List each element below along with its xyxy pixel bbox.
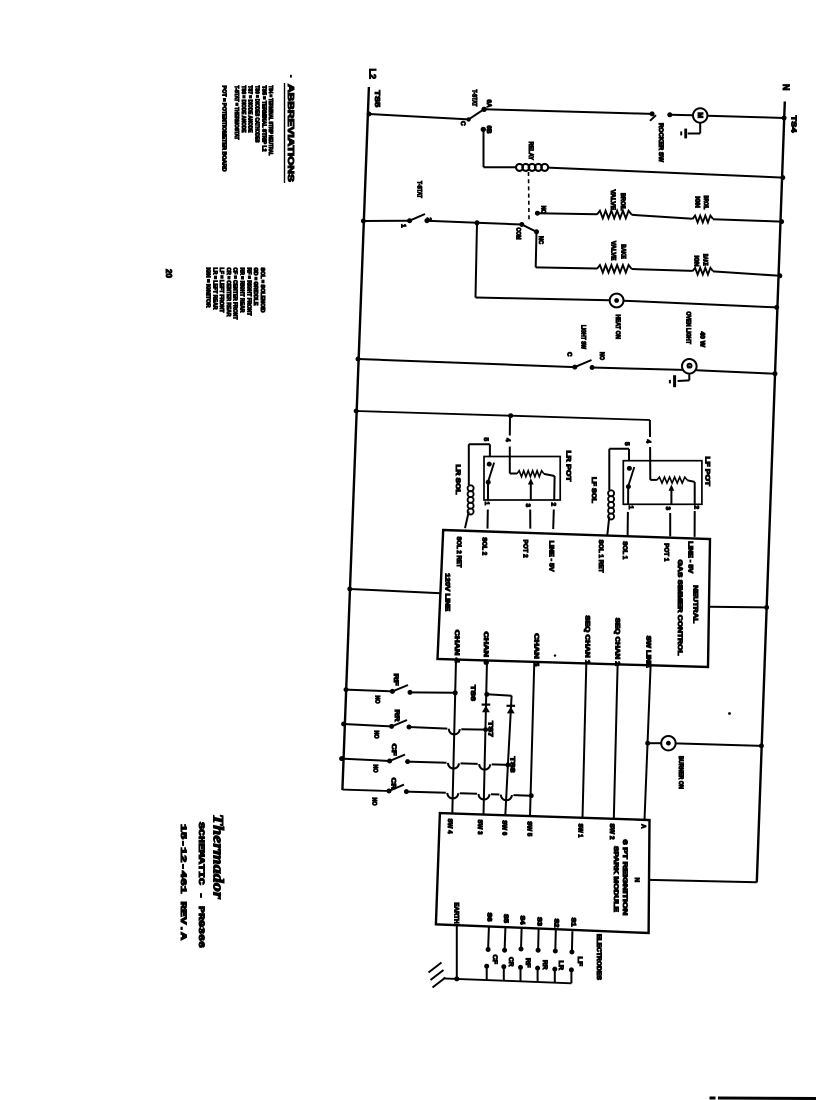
svg-text:TS5: TS5: [373, 90, 382, 107]
svg-text:BROIL: BROIL: [619, 193, 626, 211]
svg-text:6B: 6B: [485, 126, 492, 134]
svg-text:C: C: [565, 352, 572, 357]
svg-text:N: N: [781, 84, 791, 91]
svg-text:1: 1: [483, 502, 490, 506]
svg-text:TS5 = TERMINAL STRIP L2: TS5 = TERMINAL STRIP L2: [260, 86, 266, 152]
svg-text:SW 2: SW 2: [608, 824, 615, 841]
svg-text:SOL 2 RET: SOL 2 RET: [455, 537, 462, 568]
svg-text:HEAT ON: HEAT ON: [614, 315, 621, 340]
svg-text:TS8 = DIODE ANODE: TS8 = DIODE ANODE: [240, 86, 246, 133]
svg-text:TS7 = DIODE ANODE: TS7 = DIODE ANODE: [247, 86, 253, 133]
svg-text:RR = RIGHT REAR: RR = RIGHT REAR: [239, 268, 245, 313]
svg-text:NO: NO: [373, 696, 379, 704]
svg-text:ABBREVIATIONS: ABBREVIATIONS: [286, 84, 296, 182]
svg-text:BAKE: BAKE: [619, 244, 626, 258]
svg-text:S5: S5: [502, 914, 508, 924]
svg-text:SW 6: SW 6: [500, 820, 507, 836]
svg-text:CF = CENTER FRONT: CF = CENTER FRONT: [232, 268, 238, 321]
svg-text:NO: NO: [371, 765, 377, 773]
svg-text:SCHEMATIC - PRG366: SCHEMATIC - PRG366: [196, 822, 206, 948]
svg-text:CR = CENTER REAR: CR = CENTER REAR: [225, 268, 231, 317]
svg-text:T-STAT: T-STAT: [416, 181, 423, 198]
svg-text:N: N: [633, 878, 640, 883]
svg-text:POT 1: POT 1: [662, 543, 669, 562]
svg-text:SW 1: SW 1: [576, 824, 583, 839]
svg-text:RR: RR: [393, 710, 400, 722]
svg-text:S4: S4: [518, 916, 524, 926]
svg-text:3: 3: [524, 504, 531, 508]
svg-text:SW 5: SW 5: [525, 821, 532, 837]
svg-text:TS4 = TERMINAL STRIP NEUTRAL: TS4 = TERMINAL STRIP NEUTRAL: [267, 86, 273, 157]
svg-text:NO: NO: [539, 206, 546, 214]
svg-text:Thermador: Thermador: [210, 814, 226, 899]
svg-text:RF: RF: [392, 674, 399, 686]
svg-text:SEQ CHAN 2: SEQ CHAN 2: [614, 618, 621, 667]
svg-text:TS6 = DIODES CATHODES: TS6 = DIODES CATHODES: [254, 86, 260, 143]
svg-text:A: A: [639, 824, 646, 829]
svg-text:2: 2: [692, 506, 699, 510]
svg-text:S6: S6: [485, 913, 491, 923]
svg-text:ELECTRODES: ELECTRODES: [595, 934, 601, 980]
svg-text:LR POT: LR POT: [565, 451, 572, 482]
svg-text:LIGHT SW: LIGHT SW: [579, 325, 586, 349]
svg-text:40 W: 40 W: [698, 332, 705, 348]
svg-text:NC: NC: [537, 236, 544, 244]
svg-text:TS8: TS8: [508, 757, 515, 774]
svg-text:TS6: TS6: [469, 685, 476, 702]
svg-text:CHAN 4: CHAN 4: [453, 630, 460, 664]
svg-text:SOL = SOLENOID: SOL = SOLENOID: [259, 268, 265, 313]
svg-text:CHAN 5: CHAN 5: [533, 633, 540, 667]
svg-text:15-12-461 REV.A: 15-12-461 REV.A: [178, 824, 188, 941]
svg-text:LF POT: LF POT: [704, 457, 711, 487]
svg-text:OVEN LIGHT: OVEN LIGHT: [684, 312, 691, 345]
svg-text:RF = RIGHT FRONT: RF = RIGHT FRONT: [245, 268, 251, 317]
svg-text:LR: LR: [557, 961, 563, 971]
svg-text:IGN: IGN: [693, 196, 700, 208]
svg-text:EARTH: EARTH: [453, 903, 460, 925]
svg-text:5: 5: [623, 442, 630, 446]
svg-text:CR: CR: [390, 778, 397, 790]
svg-text:POT 2: POT 2: [522, 540, 529, 559]
svg-text:RELAY: RELAY: [527, 142, 534, 161]
svg-text:TS4: TS4: [789, 116, 798, 134]
svg-text:6A: 6A: [485, 100, 492, 108]
svg-text:5: 5: [482, 438, 489, 442]
svg-text:SW 3: SW 3: [476, 820, 483, 836]
svg-text:IGN = IGNITOR: IGN = IGNITOR: [205, 268, 211, 308]
svg-text:C: C: [459, 121, 466, 126]
svg-text:NO: NO: [598, 352, 605, 360]
svg-text:COM: COM: [514, 228, 521, 240]
svg-text:20: 20: [164, 269, 173, 278]
svg-text:CR: CR: [507, 957, 513, 967]
svg-text:4: 4: [645, 440, 652, 444]
svg-text:SW 4: SW 4: [446, 819, 453, 835]
svg-text:S3: S3: [535, 917, 541, 927]
svg-text:NEUTRAL: NEUTRAL: [691, 585, 698, 623]
svg-text:IGN: IGN: [692, 256, 699, 268]
svg-text:1: 1: [400, 224, 407, 228]
svg-text:LINE - 5V: LINE - 5V: [686, 541, 693, 574]
svg-text:VALVE: VALVE: [609, 241, 616, 261]
svg-text:RR: RR: [541, 960, 547, 970]
svg-text:1: 1: [627, 506, 634, 510]
svg-text:LR SOL: LR SOL: [454, 465, 461, 495]
svg-text:SPARK MODULE: SPARK MODULE: [612, 846, 619, 913]
svg-text:VALVE: VALVE: [609, 190, 616, 211]
svg-text:T-STAT = THERMOSTAT: T-STAT = THERMOSTAT: [233, 86, 239, 141]
svg-text:CF: CF: [491, 955, 497, 965]
svg-text:SOL 2: SOL 2: [480, 537, 487, 556]
svg-text:LR = LEFT REAR: LR = LEFT REAR: [211, 268, 217, 310]
svg-text:RF: RF: [524, 958, 530, 968]
svg-text:4: 4: [504, 438, 511, 442]
svg-text:GAS SIMMER CONTROL: GAS SIMMER CONTROL: [676, 560, 683, 656]
svg-text:SEQ CHAN 1: SEQ CHAN 1: [583, 615, 590, 665]
svg-text:BURNER ON: BURNER ON: [677, 756, 684, 789]
svg-text:NO: NO: [372, 731, 378, 739]
svg-text:L2: L2: [367, 69, 377, 80]
svg-text:LF = LEFT FRONT: LF = LEFT FRONT: [218, 268, 224, 314]
svg-text:S2: S2: [552, 919, 558, 929]
svg-text:T-STAT: T-STAT: [471, 90, 478, 107]
svg-text:LF SOL: LF SOL: [590, 477, 597, 503]
svg-text:2: 2: [550, 503, 557, 507]
svg-text:3: 3: [664, 507, 671, 511]
svg-text:CHAN 3: CHAN 3: [482, 632, 489, 666]
svg-text:6 PT REIGNITION: 6 PT REIGNITION: [621, 840, 628, 916]
svg-text:BAKE: BAKE: [701, 254, 708, 266]
svg-text:SW LINE: SW LINE: [644, 636, 651, 668]
svg-text:BROIL: BROIL: [702, 195, 709, 209]
svg-text:POT = POTENTIOMETER BOARD: POT = POTENTIOMETER BOARD: [220, 86, 226, 172]
svg-text:G: G: [685, 363, 692, 369]
svg-text:120V LINE: 120V LINE: [443, 573, 450, 612]
svg-text:M: M: [696, 112, 703, 118]
svg-text:ROCKER SW: ROCKER SW: [657, 123, 664, 162]
svg-text:LINE - 5V: LINE - 5V: [547, 541, 554, 573]
svg-text:2: 2: [425, 218, 432, 222]
svg-text:GD = GRIDDLE: GD = GRIDDLE: [252, 268, 258, 307]
svg-text:SOL 1 RET: SOL 1 RET: [597, 540, 604, 573]
svg-text:TS7: TS7: [486, 721, 493, 738]
svg-text:CF: CF: [390, 744, 397, 756]
svg-text:S1: S1: [569, 918, 575, 928]
svg-text:LF: LF: [576, 957, 582, 967]
svg-text:NO: NO: [370, 798, 376, 806]
svg-text:SOL 1: SOL 1: [621, 541, 628, 560]
